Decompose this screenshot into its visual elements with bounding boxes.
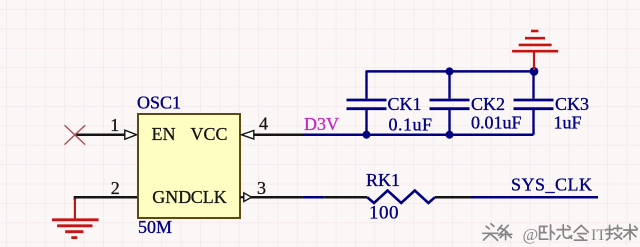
pin 3 arrow <box>244 193 252 202</box>
capacitor CK2 <box>430 71 470 135</box>
ref RK1 <box>366 170 400 190</box>
svg-text:1uF: 1uF <box>554 113 582 133</box>
wire navy segment E (SYS_CLK net) <box>471 196 598 199</box>
pin 4 arrow <box>241 131 253 140</box>
svg-text:D3V: D3V <box>304 114 339 134</box>
头 <box>483 224 498 241</box>
svg-text:RK1: RK1 <box>366 170 400 190</box>
条 <box>498 225 512 240</box>
value 50M <box>138 217 172 237</box>
svg-text:4: 4 <box>259 114 268 134</box>
wire D3V net (navy) <box>303 133 534 136</box>
wire pin 1 segment <box>75 133 125 136</box>
svg-text:100: 100 <box>369 203 399 224</box>
svg-text:1: 1 <box>110 115 119 135</box>
pin name GND <box>152 187 191 207</box>
wire black segment C <box>324 196 367 199</box>
svg-text:VCC: VCC <box>191 124 228 144</box>
svg-text:SYS_CLK: SYS_CLK <box>511 175 593 195</box>
svg-text:CLK: CLK <box>191 187 227 207</box>
svg-text:0.01uF: 0.01uF <box>471 113 522 133</box>
技 <box>606 225 622 240</box>
svg-text:OSC1: OSC1 <box>137 93 181 113</box>
watermark @ <box>523 225 539 244</box>
power bar-ground symbol (red) <box>512 31 558 70</box>
pin 3 stub <box>240 196 244 198</box>
svg-text:3: 3 <box>257 178 266 198</box>
top rail wire <box>367 70 535 73</box>
junction dot at CK1 bottom <box>363 131 371 139</box>
svg-text:2: 2 <box>111 178 120 198</box>
svg-text:EN: EN <box>152 124 176 144</box>
wire navy segment B <box>303 196 324 199</box>
wire pin 2 to ground <box>75 197 137 200</box>
pin number 4 <box>259 114 268 134</box>
svg-text:GND: GND <box>152 187 191 207</box>
watermark: 头条 @卧龙会IT技术 <box>483 224 512 241</box>
value 0.01uF <box>471 113 522 133</box>
value 100 <box>369 203 399 224</box>
value 0.1uF <box>389 115 433 135</box>
reference designator OSC1 <box>137 93 181 113</box>
pin number 3 <box>257 178 266 198</box>
会 <box>574 225 588 240</box>
resistor RK1 zigzag <box>367 191 435 204</box>
junction dot at power symbol / CK3 top <box>530 67 539 76</box>
pin 4 wire black segment <box>254 133 304 136</box>
capacitor CK3 <box>514 71 554 135</box>
wire pin3 black segment A <box>251 196 303 199</box>
ref CK3 <box>555 94 589 114</box>
no-ERC cross marker on pin 1 <box>65 125 86 144</box>
junction dot at CK2 bottom <box>446 131 454 139</box>
pin 1 arrow <box>125 130 137 139</box>
pin name EN <box>152 124 176 144</box>
value 1uF <box>554 113 582 133</box>
net label SYS_CLK <box>511 175 593 195</box>
watermark IT <box>591 227 606 244</box>
wire black segment D <box>435 196 471 199</box>
capacitor CK1 <box>347 71 387 135</box>
pin name VCC <box>191 124 228 144</box>
svg-text:IT: IT <box>591 227 606 244</box>
pin number 1 <box>110 115 119 135</box>
svg-text:CK2: CK2 <box>471 94 505 114</box>
svg-text:@: @ <box>523 225 539 244</box>
ref CK1 <box>388 94 422 114</box>
pin name CLK <box>191 187 227 207</box>
junction dot at CK2 top <box>446 67 454 75</box>
svg-text:0.1uF: 0.1uF <box>389 115 433 135</box>
svg-text:50M: 50M <box>138 217 172 237</box>
ground symbol GND (red) <box>52 199 99 238</box>
卧 <box>540 225 555 240</box>
ref CK2 <box>471 94 505 114</box>
svg-text:CK1: CK1 <box>388 94 422 114</box>
svg-text:CK3: CK3 <box>555 94 589 114</box>
pin number 2 <box>111 178 120 198</box>
龙 <box>557 225 572 240</box>
net label D3V <box>304 114 339 134</box>
术 <box>624 224 638 239</box>
oscillator U=OSC1 body <box>138 114 240 218</box>
